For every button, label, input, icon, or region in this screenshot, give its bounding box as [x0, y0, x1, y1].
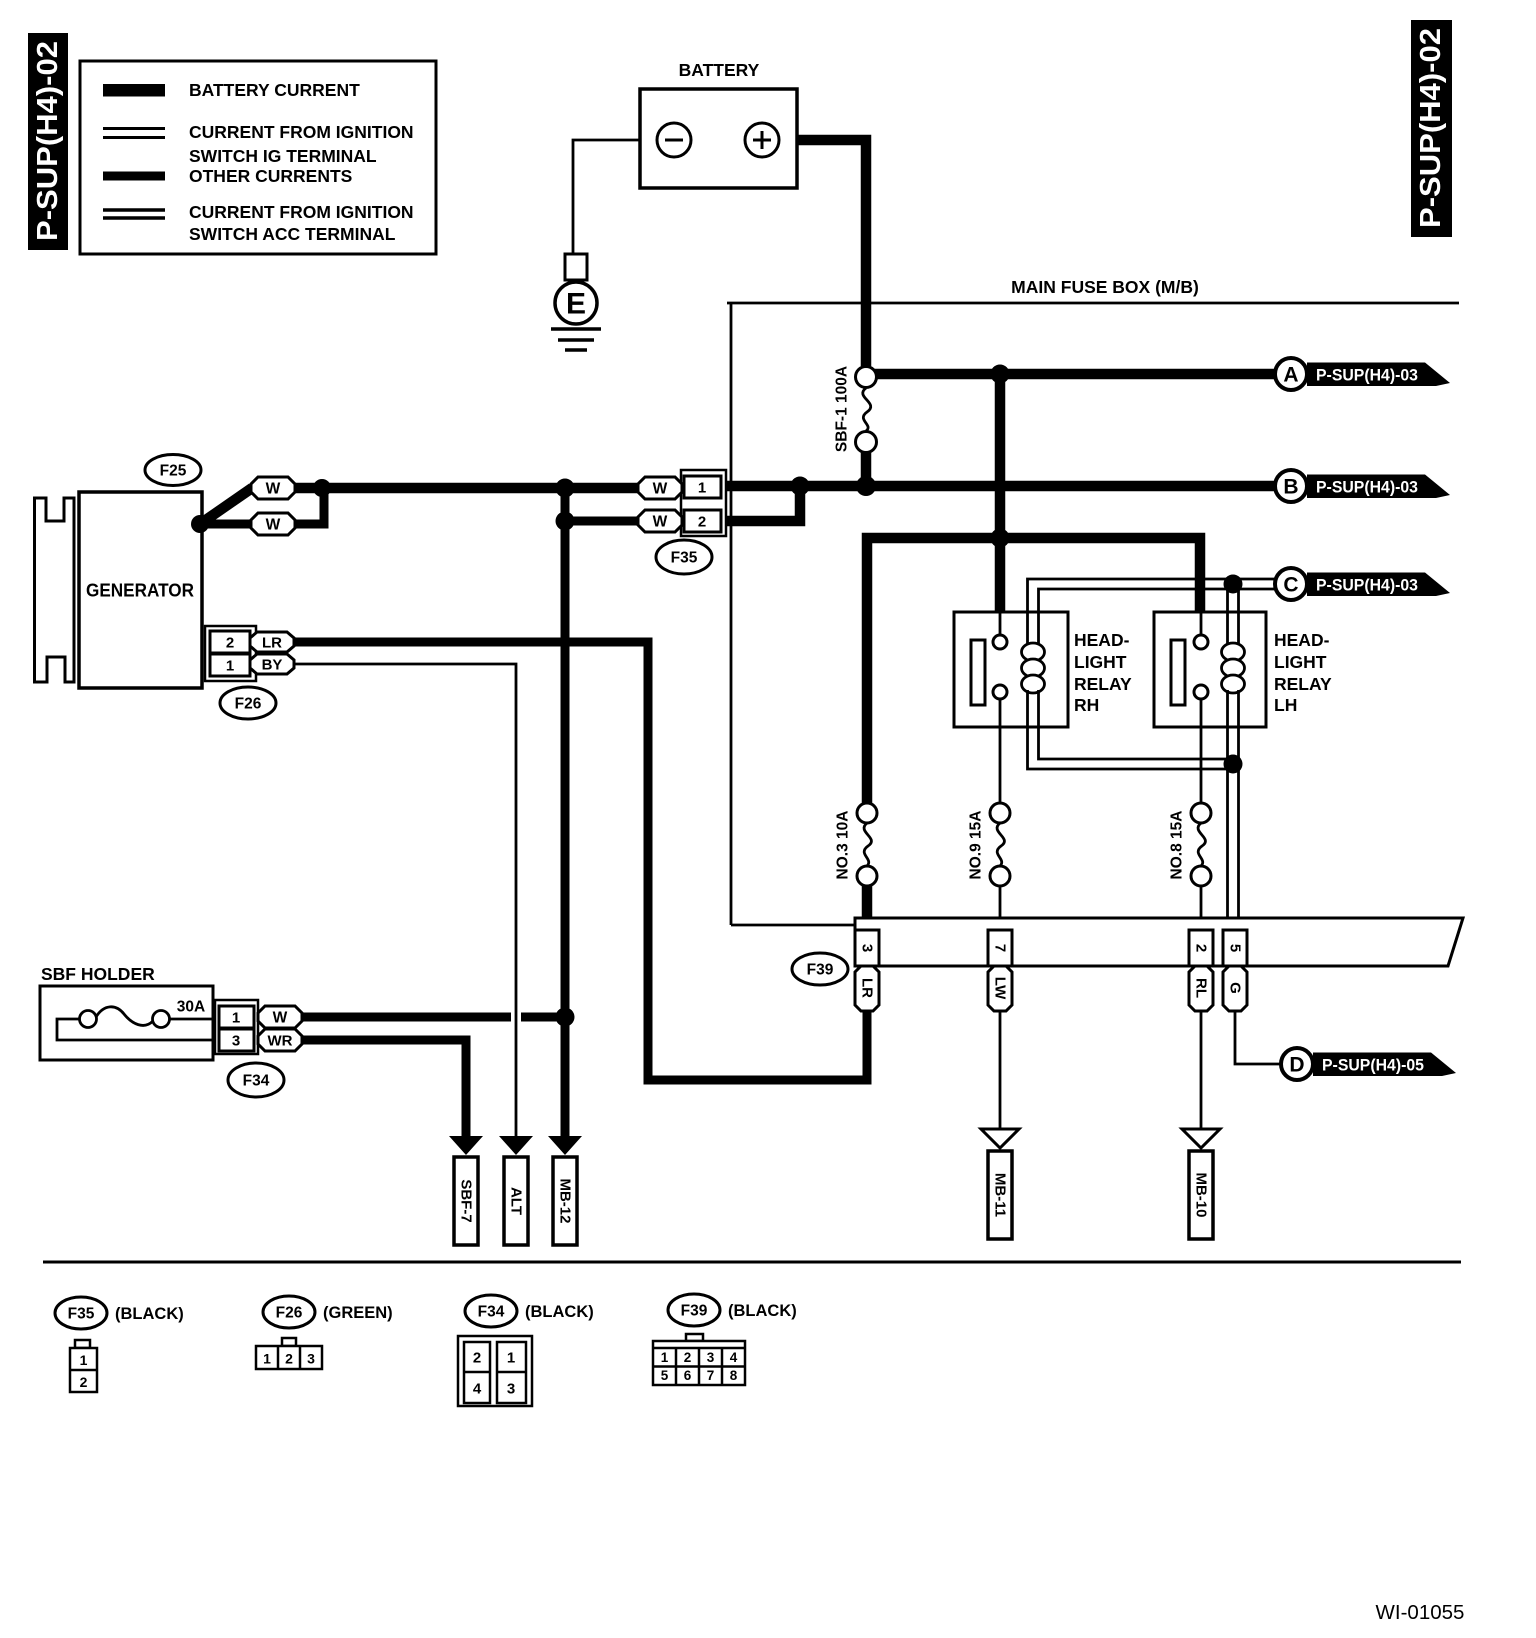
wire C row double line [1233, 579, 1275, 589]
svg-text:RELAY: RELAY [1274, 674, 1332, 694]
svg-text:F39: F39 [681, 1303, 708, 1320]
node junction relay coils [1224, 755, 1243, 774]
wire RH switch to fuse NO.9 [999, 699, 1002, 803]
svg-text:2: 2 [226, 635, 234, 652]
node generator W junction [191, 515, 209, 533]
terminal MB-10 [1189, 1151, 1213, 1239]
svg-text:P-SUP(H4)-05: P-SUP(H4)-05 [1322, 1056, 1424, 1075]
svg-text:P-SUP(H4)-02: P-SUP(H4)-02 [32, 41, 64, 241]
svg-text:LIGHT: LIGHT [1274, 652, 1327, 672]
connector F35 label [656, 540, 712, 574]
svg-text:RH: RH [1074, 695, 1099, 715]
F39 pin 5 [1223, 930, 1247, 966]
svg-text:(GREEN): (GREEN) [323, 1304, 393, 1322]
svg-text:1: 1 [263, 1351, 271, 1367]
main fuse box boundary [727, 277, 1459, 925]
wire LW to MB-11 [981, 1011, 1019, 1148]
svg-text:MAIN FUSE BOX (M/B): MAIN FUSE BOX (M/B) [1011, 277, 1199, 297]
wire relay feed row and NO.3 feed [867, 538, 1200, 803]
svg-text:7: 7 [707, 1368, 715, 1383]
svg-text:GENERATOR: GENERATOR [86, 580, 194, 601]
wire WR from SBF holder to SBF-7 [302, 1040, 483, 1155]
svg-text:WI-01055: WI-01055 [1376, 1601, 1465, 1624]
svg-text:W: W [266, 481, 281, 498]
terminal SBF-7 [454, 1157, 478, 1245]
wire label W oval F35 pin2 [638, 510, 682, 532]
wire label W oval row2 generator [251, 513, 295, 535]
svg-text:SWITCH IG TERMINAL: SWITCH IG TERMINAL [189, 146, 377, 166]
svg-text:P-SUP(H4)-02: P-SUP(H4)-02 [1415, 28, 1447, 228]
svg-text:3: 3 [859, 944, 876, 952]
svg-text:F25: F25 [160, 463, 187, 480]
wire label W oval SBF holder [258, 1006, 302, 1028]
svg-text:30A: 30A [177, 999, 205, 1016]
svg-text:F26: F26 [276, 1305, 303, 1322]
wire label RL pill below pin2 [1189, 966, 1213, 1011]
svg-text:OTHER CURRENTS: OTHER CURRENTS [189, 166, 352, 186]
svg-text:CURRENT FROM IGNITION: CURRENT FROM IGNITION [189, 202, 414, 222]
svg-text:NO.3 10A: NO.3 10A [835, 811, 852, 880]
svg-text:LIGHT: LIGHT [1074, 652, 1127, 672]
svg-text:F26: F26 [235, 696, 262, 713]
wire W row1 to F35 (battery current) [295, 483, 638, 494]
svg-text:F34: F34 [478, 1304, 505, 1321]
svg-text:NO.8 15A: NO.8 15A [1169, 811, 1186, 880]
node junction MB-12/row2 [556, 512, 575, 531]
generator box [79, 492, 202, 688]
wire label WR oval SBF holder [258, 1029, 302, 1051]
wire battery plus to SBF-1 (battery current) [779, 140, 866, 366]
svg-text:BATTERY CURRENT: BATTERY CURRENT [189, 80, 360, 100]
relay RH coil [1022, 579, 1234, 769]
fuse NO.8 15A [1169, 803, 1212, 918]
connector F25 label [145, 455, 201, 486]
svg-text:RELAY: RELAY [1074, 674, 1132, 694]
ground E [551, 254, 601, 350]
svg-text:HEAD-: HEAD- [1274, 630, 1330, 650]
connector F34 pins 1/3 [215, 1000, 258, 1054]
F39 pin 3 [855, 930, 879, 966]
svg-text:F34: F34 [243, 1073, 270, 1090]
svg-text:WR: WR [268, 1033, 293, 1050]
F39 pin 7 [988, 930, 1012, 966]
wire LH switch to fuse NO.8 [1200, 699, 1203, 803]
connector detail F26 (GREEN) [256, 1296, 393, 1369]
svg-text:ALT: ALT [508, 1187, 525, 1215]
svg-text:5: 5 [661, 1368, 669, 1383]
wire label LR oval [250, 632, 294, 652]
svg-text:BY: BY [262, 657, 283, 674]
wire battery minus to ground [573, 140, 657, 254]
fuse NO.3 10A [835, 803, 878, 918]
generator pulley bracket [35, 498, 75, 682]
svg-text:1: 1 [226, 658, 234, 675]
svg-text:W: W [653, 514, 668, 531]
wire MB-12 column [548, 488, 582, 1155]
connector detail F39 (BLACK) [653, 1294, 797, 1385]
label headlight relay RH [1074, 630, 1132, 715]
page label left P-SUP(H4)-02 [28, 33, 68, 250]
svg-text:SBF HOLDER: SBF HOLDER [41, 964, 155, 984]
wire SBF-1 to B row [861, 452, 872, 486]
relay LH coil [1222, 588, 1245, 918]
fuse SBF-1 100A [834, 366, 877, 453]
svg-text:MB-10: MB-10 [1193, 1172, 1210, 1217]
svg-text:6: 6 [684, 1368, 692, 1383]
connector F34 label [228, 1063, 284, 1097]
wire label W oval F35 pin1 [638, 477, 682, 499]
SBF holder [40, 964, 215, 1060]
svg-text:2: 2 [1193, 944, 1210, 952]
wire B row (battery current) [721, 481, 1275, 492]
node junction relay feed row [991, 529, 1010, 548]
node junction W/MB-12 column [556, 1008, 575, 1027]
wire RH relay feed [995, 538, 1006, 614]
svg-text:D: D [1289, 1054, 1304, 1077]
node W rows junction [313, 479, 331, 497]
svg-text:4: 4 [473, 1381, 482, 1398]
terminal MB-12 [553, 1157, 577, 1245]
generator pins 2/1 connector [205, 626, 256, 681]
svg-text:MB-12: MB-12 [557, 1178, 574, 1223]
svg-text:SBF-1 100A: SBF-1 100A [834, 366, 851, 452]
svg-text:3: 3 [232, 1033, 240, 1050]
svg-text:7: 7 [992, 944, 1009, 952]
wire vertical A-row to relay feed row [995, 374, 1006, 538]
arrow B P-SUP(H4)-03 [1275, 470, 1450, 502]
svg-text:MB-11: MB-11 [992, 1173, 1009, 1217]
svg-text:P-SUP(H4)-03: P-SUP(H4)-03 [1316, 478, 1418, 497]
svg-text:3: 3 [507, 1381, 515, 1398]
arrow D P-SUP(H4)-05 [1281, 1048, 1456, 1080]
wire label BY oval [250, 654, 294, 674]
connector F39 label [792, 953, 848, 985]
svg-text:F39: F39 [807, 962, 834, 979]
node junction F35 pin2 riser on B row [791, 477, 810, 496]
svg-text:LW: LW [992, 977, 1009, 1000]
page label right P-SUP(H4)-02 [1411, 20, 1452, 237]
svg-text:LR: LR [859, 978, 876, 998]
wire generator W diagonal [200, 488, 252, 524]
svg-text:W: W [266, 517, 281, 534]
F39 pin 2 [1189, 930, 1213, 966]
arrow A P-SUP(H4)-03 [1275, 358, 1450, 390]
svg-text:NO.9 15A: NO.9 15A [968, 811, 985, 880]
battery [640, 60, 797, 188]
connector detail F35 (BLACK) [55, 1297, 184, 1392]
arrow C P-SUP(H4)-03 [1275, 568, 1450, 600]
svg-text:B: B [1283, 476, 1298, 499]
node junction MB-12/row1 [556, 479, 575, 498]
svg-text:8: 8 [730, 1368, 738, 1383]
svg-text:1: 1 [232, 1010, 240, 1027]
svg-text:2: 2 [80, 1374, 88, 1390]
wire BY from generator to ALT [294, 664, 516, 1136]
svg-text:1: 1 [80, 1352, 88, 1368]
wire W from SBF holder to MB-12 column [302, 1013, 565, 1022]
node junction SBF-1/B row [856, 476, 876, 496]
svg-text:(BLACK): (BLACK) [728, 1302, 797, 1320]
wire F35 pin2 riser [721, 486, 800, 521]
label headlight relay LH [1274, 630, 1332, 715]
svg-text:LR: LR [262, 635, 282, 652]
wire label G pill below pin5 [1223, 966, 1247, 1011]
wire A row (battery current) [872, 369, 1275, 380]
svg-text:RL: RL [1193, 978, 1210, 998]
wire generator W row2 start [200, 520, 251, 529]
svg-text:2: 2 [684, 1350, 692, 1365]
divider line [43, 1261, 1461, 1264]
svg-text:BATTERY: BATTERY [679, 60, 760, 80]
svg-text:C: C [1283, 574, 1298, 597]
svg-text:1: 1 [661, 1350, 669, 1365]
fuse NO.9 15A [968, 803, 1011, 918]
svg-text:1: 1 [507, 1350, 515, 1367]
connector F39 bus band [855, 918, 1463, 966]
wire W row2 riser to row1 [295, 488, 324, 524]
svg-text:1: 1 [698, 480, 706, 497]
connector detail F34 (BLACK) [458, 1295, 594, 1406]
svg-text:CURRENT FROM IGNITION: CURRENT FROM IGNITION [189, 122, 414, 142]
node junction on A row [991, 365, 1010, 384]
svg-text:F35: F35 [671, 550, 698, 567]
svg-text:P-SUP(H4)-03: P-SUP(H4)-03 [1316, 366, 1418, 385]
svg-text:2: 2 [698, 514, 706, 531]
svg-text:A: A [1283, 364, 1298, 387]
headlight relay LH box [1154, 612, 1266, 727]
svg-text:E: E [566, 288, 586, 321]
connector F26 label [220, 687, 276, 719]
wire W row2 from MB-12 column to F35 [565, 517, 638, 526]
svg-text:2: 2 [285, 1351, 293, 1367]
svg-text:G: G [1227, 982, 1244, 994]
svg-text:W: W [273, 1010, 288, 1027]
svg-text:HEAD-: HEAD- [1074, 630, 1130, 650]
legend box [80, 61, 436, 254]
svg-text:(BLACK): (BLACK) [525, 1303, 594, 1321]
terminal MB-11 [988, 1151, 1012, 1239]
svg-text:LH: LH [1274, 695, 1297, 715]
wire RL to MB-10 [1182, 1011, 1220, 1148]
wire label LR pill below pin3 [855, 966, 879, 1011]
svg-text:3: 3 [307, 1351, 315, 1367]
connector F35 pins [681, 470, 726, 536]
headlight relay RH box [954, 612, 1068, 727]
svg-text:W: W [653, 481, 668, 498]
svg-text:4: 4 [730, 1350, 738, 1365]
wire LR from generator to F39 pin3 (other current) [294, 642, 867, 1080]
terminal ALT [499, 1136, 533, 1245]
wire G to arrow D [1235, 1011, 1281, 1064]
svg-text:2: 2 [473, 1350, 481, 1367]
node junction C row [1224, 575, 1243, 594]
svg-text:F35: F35 [68, 1306, 95, 1323]
svg-text:3: 3 [707, 1350, 715, 1365]
wire label LW pill below pin7 [988, 966, 1012, 1011]
svg-text:(BLACK): (BLACK) [115, 1305, 184, 1323]
svg-text:5: 5 [1227, 944, 1244, 952]
svg-text:SWITCH ACC TERMINAL: SWITCH ACC TERMINAL [189, 224, 396, 244]
svg-text:SBF-7: SBF-7 [458, 1179, 475, 1222]
wire label W oval row1 generator [251, 477, 295, 499]
svg-text:P-SUP(H4)-03: P-SUP(H4)-03 [1316, 576, 1418, 595]
